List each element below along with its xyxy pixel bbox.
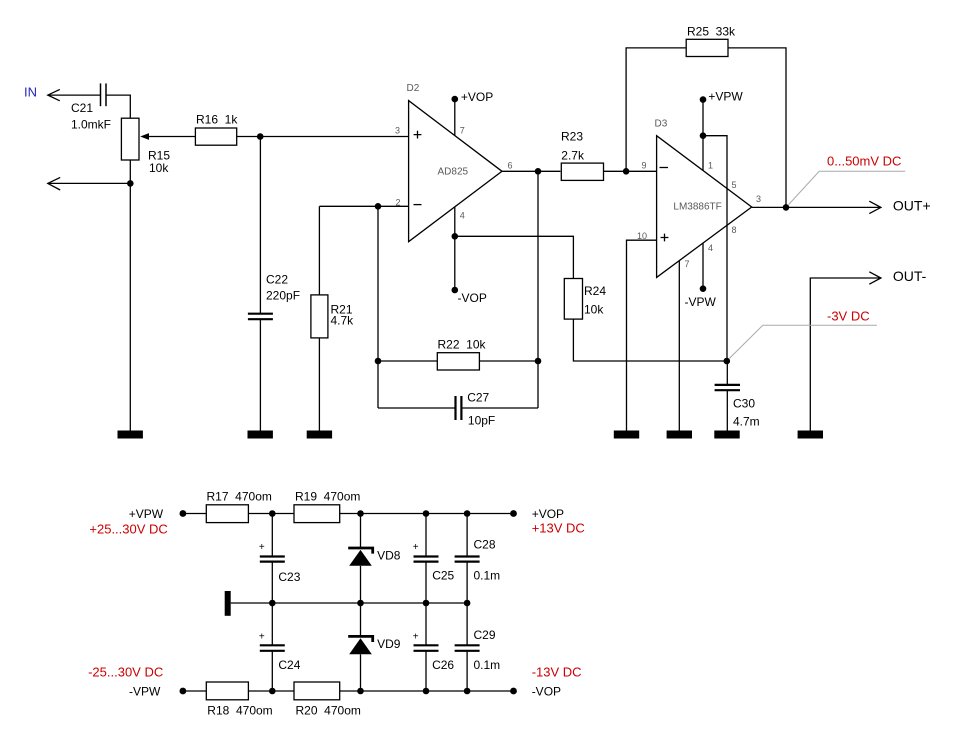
output arrow OUT+ [869,197,930,213]
svg-text:OUT-: OUT- [893,268,927,284]
svg-text:4: 4 [460,211,465,221]
ground below C22 [248,431,273,439]
node IN [24,85,37,100]
svg-text:-13V DC: -13V DC [532,665,582,680]
svg-text:C27: C27 [467,391,489,405]
node junction pin6 [535,168,542,175]
wire C22 branch [259,137,261,314]
svg-text:10k: 10k [149,161,169,175]
resistor R25 feedback [626,25,786,208]
resistor R17 [206,490,272,523]
svg-text:VD8: VD8 [377,548,401,562]
svg-text:+13V DC: +13V DC [532,520,585,535]
svg-text:10k: 10k [584,303,604,317]
wire R15 bottom to ground [129,160,131,431]
svg-text:+: + [259,542,265,553]
svg-text:C30: C30 [733,397,755,411]
resistor R23 [561,130,604,181]
svg-text:+25...30V DC: +25...30V DC [89,521,167,536]
op-amp D2 AD825 [395,83,513,242]
node junction R15 bottom [127,180,134,187]
svg-text:+: + [413,631,419,642]
node junction pin1/pin5 [700,132,707,139]
capacitor C27 [378,361,538,428]
svg-text:9: 9 [642,160,647,170]
capacitor C23 [259,514,301,604]
svg-text:6: 6 [508,160,513,170]
ground below OUT- [798,431,823,439]
svg-text:C23: C23 [278,570,300,584]
ground below C30 [714,431,739,439]
wire pin4 to R24 [455,236,574,278]
capacitor C28 [455,514,501,604]
node junction top rail C28 [464,510,471,517]
svg-text:-VPW: -VPW [129,684,161,698]
node junction mid C23 [269,600,276,607]
svg-text:8: 8 [732,225,737,235]
potentiometer R15 [121,118,170,175]
wire C21 to R15 top [106,95,130,118]
wire R15 wiper to R16 [149,136,195,138]
node junction bottom rail VD9 [357,688,364,695]
ground below R21 [307,431,332,439]
svg-text:-VOP: -VOP [458,291,487,305]
svg-text:C21: C21 [71,101,93,115]
wire D2 pin4 stub [454,207,456,290]
resistor R18 [206,682,272,718]
svg-text:+VPW: +VPW [708,90,743,104]
resistor R21 [311,295,354,338]
ground below pin7 [667,431,692,439]
svg-text:0.1m: 0.1m [474,658,501,672]
node -VOP [452,287,487,305]
svg-text:+VPW: +VPW [129,507,164,521]
node junction mid VD [357,600,364,607]
svg-text:1.0mkF: 1.0mkF [71,118,111,132]
tap arrow [48,177,131,190]
svg-text:4: 4 [708,243,713,253]
resistor R24 [564,279,606,320]
node junction bottom rail C24 [269,688,276,695]
svg-text:C24: C24 [278,658,300,672]
diode VD9 [348,603,401,691]
svg-text:C26: C26 [432,658,454,672]
svg-text:5: 5 [732,180,737,190]
wire IN to C21 [48,94,101,96]
input arrow IN [48,89,60,100]
svg-text:R25 33k: R25 33k [687,25,736,39]
resistor R16 [195,113,238,146]
svg-text:4.7k: 4.7k [331,314,355,328]
wire R23 to D3 pin 9 [604,170,657,172]
node junction OUT+ [783,204,790,211]
svg-text:C28: C28 [474,538,496,552]
node -VOP terminal [510,665,581,699]
svg-text:R22 10k: R22 10k [438,338,487,352]
node junction bottom rail C29 [464,688,471,695]
svg-text:7: 7 [685,259,690,269]
svg-text:+: + [413,542,419,553]
svg-text:2.7k: 2.7k [561,149,585,163]
ground below R15 [118,431,143,439]
capacitor C21 [71,83,111,131]
wire D3 pin10 to ground [627,240,657,431]
resistor R22 [375,338,542,371]
node junction top rail C25 [423,510,430,517]
svg-text:R23: R23 [561,130,583,144]
wire bottom rail [183,690,514,692]
svg-text:R20 470om: R20 470om [296,704,361,718]
wire to R21 [318,206,320,295]
node -VPW [685,243,717,309]
svg-text:0.1m: 0.1m [474,569,501,583]
node junction mid C25 [423,600,430,607]
node junction top rail VD8 [357,510,364,517]
svg-text:R19 470om: R19 470om [295,490,360,504]
capacitor C25 [413,514,455,604]
svg-text:D2: D2 [407,83,420,94]
svg-text:3: 3 [395,126,400,136]
node +VPW [700,90,744,171]
node -VPW terminal [88,665,186,699]
capacitor C29 [455,603,501,691]
svg-text:AD825: AD825 [438,166,469,177]
annotation 0...50mV DC [789,154,906,205]
node junction top rail C23 [269,510,276,517]
resistor R20 [294,682,361,718]
svg-text:220pF: 220pF [266,289,300,303]
svg-text:10: 10 [637,231,647,241]
svg-text:0...50mV DC: 0...50mV DC [827,154,901,169]
wire middle rail [231,602,467,604]
svg-text:R24: R24 [584,284,606,298]
node +VOP terminal [510,507,585,536]
svg-text:OUT+: OUT+ [893,197,931,213]
node junction R16/C22 [257,133,264,140]
node junction mid C28 [464,600,471,607]
ground bar chassis [225,591,231,616]
svg-text:C25: C25 [432,569,454,583]
svg-text:-VOP: -VOP [532,684,561,698]
node +VPW terminal [89,507,186,537]
svg-text:+: + [259,631,265,642]
svg-text:-25...30V DC: -25...30V DC [88,665,163,680]
op-amp D3 LM3886TF [637,119,761,278]
wire D2 output [502,170,560,172]
resistor R19 [294,490,360,523]
node junction pin4 [452,233,459,240]
wire pin2 junction down to R22 [377,206,379,361]
node +VOP [452,90,494,136]
node junction pin2 [375,203,382,210]
svg-text:R16 1k: R16 1k [196,113,238,127]
wire R16 to D2 pin 3 [237,136,409,138]
wire R21 to ground [318,338,320,431]
wire D3 output to OUT+ [752,206,881,208]
annotation -3V DC [729,309,877,359]
wire D3 pin7 to ground [678,261,680,431]
wire pin5/pin8 line [703,136,727,361]
svg-text:D3: D3 [655,119,668,130]
node junction bottom rail C26 [423,688,430,695]
capacitor C24 [259,603,301,691]
node junction C30 [724,358,731,365]
svg-text:IN: IN [24,85,37,100]
svg-text:7: 7 [460,126,465,136]
capacitor C26 [413,603,455,691]
wire top rail [183,513,514,515]
svg-text:1: 1 [708,160,713,170]
svg-text:+VOP: +VOP [532,507,564,521]
svg-text:C29: C29 [474,628,496,642]
node junction pin9/R25 [623,168,630,175]
wire pin6 down to R22 right [537,171,539,361]
svg-text:VD9: VD9 [377,637,401,651]
wire D2 pin 2 [319,205,408,207]
svg-text:-VPW: -VPW [685,295,717,309]
svg-text:-3V DC: -3V DC [827,309,870,324]
output arrow OUT- [810,268,926,431]
svg-text:R17 470om: R17 470om [207,490,272,504]
svg-text:C22: C22 [266,273,288,287]
svg-text:3: 3 [756,194,761,204]
svg-text:4.7m: 4.7m [733,415,760,429]
svg-text:10pF: 10pF [468,414,495,428]
wire R24 bottom to C30 junction [573,319,726,361]
svg-text:R18 470om: R18 470om [207,704,272,718]
capacitor C22 [248,273,300,320]
svg-text:+VOP: +VOP [461,90,493,104]
svg-text:LM3886TF: LM3886TF [673,202,721,213]
wire C22 to ground [259,319,261,431]
diode VD8 [348,514,401,604]
capacitor C30 [715,361,760,431]
ground below pin10 [614,431,639,439]
